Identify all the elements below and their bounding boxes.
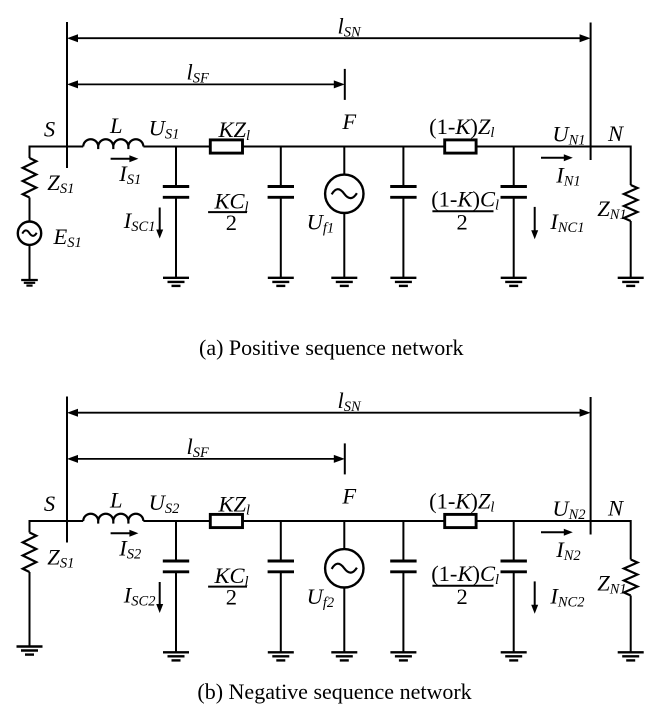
- inductor L (b): [83, 514, 143, 524]
- wire: F branch drop (b): [343, 521, 345, 549]
- capacitor (1-K)C_l/2 left (b): [390, 521, 416, 652]
- wire: Z_S1 to ground (b): [29, 572, 31, 647]
- wire: right drop to Z_N1 (a): [630, 146, 632, 186]
- svg-text:2: 2: [226, 585, 237, 610]
- dimension arrow l_SF (b): [67, 455, 345, 463]
- wire: main horizontal bus S to N (a): [30, 146, 84, 148]
- svg-text:N: N: [607, 121, 625, 146]
- ground (cap 1) (a): [163, 278, 189, 286]
- dimension arrow l_SF (a): [67, 80, 345, 88]
- wire: U_f2 to ground (b): [343, 588, 345, 653]
- capacitor (1-K)C_l/2 right (a): [501, 147, 527, 278]
- resistor Z_S1 (a): [23, 158, 37, 198]
- arrow current I_N2 direction (b): [541, 529, 573, 536]
- arrow current I_SC1 direction (a): [156, 208, 163, 239]
- ground (cap 1) (b): [163, 652, 189, 660]
- value label (1-K)C_l/2 (a): [431, 187, 499, 235]
- capacitor (1-K)C_l/2 right (b): [501, 521, 527, 652]
- svg-text:2: 2: [457, 210, 468, 235]
- source U_f1 (a): [325, 175, 363, 213]
- ground (cap 4) (a): [501, 278, 527, 286]
- ground (cap 4) (b): [501, 652, 527, 660]
- wire: Z_N1 to ground (a): [630, 221, 632, 278]
- svg-text:(1-K)Zl: (1-K)Zl: [429, 489, 494, 516]
- ground (source branch) (a): [21, 280, 38, 286]
- svg-text:2: 2: [226, 210, 237, 235]
- arrow current I_S1 direction (a): [111, 155, 139, 162]
- wire: left drop to Z_S1 (b): [29, 520, 31, 533]
- wire: F branch drop (a): [343, 147, 345, 175]
- svg-text:F: F: [341, 484, 356, 509]
- svg-text:L: L: [109, 488, 123, 513]
- wire: right drop to Z_N1 (b): [630, 520, 632, 560]
- ground (cap 2) (b): [268, 652, 294, 660]
- resistor Z_S1 (b): [23, 533, 37, 573]
- svg-text:(b) Negative sequence network: (b) Negative sequence network: [197, 679, 471, 704]
- node S bus line (b): [66, 397, 68, 543]
- inductor L (a): [83, 139, 143, 149]
- capacitor (1-K)C_l/2 left (a): [390, 147, 416, 278]
- node N bus line (a): [590, 23, 592, 161]
- wire: main horizontal bus S to N (b): [30, 520, 84, 522]
- svg-text:KZl: KZl: [218, 117, 251, 144]
- arrow current I_NC2 direction (b): [531, 581, 538, 613]
- svg-text:S: S: [44, 117, 55, 142]
- arrow current I_SC2 direction (b): [156, 582, 163, 613]
- value label KC_l/2 (b): [208, 563, 248, 610]
- resistor KZ_l (b): [210, 514, 242, 527]
- ground (fault source) (a): [331, 278, 357, 286]
- capacitor KC_l/2 left, node U_S2 (b): [163, 521, 189, 652]
- resistor Z_N1 (b): [624, 560, 638, 596]
- ground (source branch) (b): [17, 647, 43, 655]
- svg-text:L: L: [109, 113, 123, 138]
- arrow current I_NC1 direction (a): [531, 207, 538, 239]
- capacitor KC_l/2 right (a): [268, 147, 294, 278]
- wire: U_f1 to ground (a): [343, 213, 345, 278]
- capacitor KC_l/2 right (b): [268, 521, 294, 652]
- source E_S1 (a): [18, 222, 41, 245]
- ground (cap 3) (a): [390, 278, 416, 286]
- resistor KZ_l (a): [210, 140, 242, 153]
- ground (Z_N1) (b): [618, 652, 644, 660]
- wire: E_S1 to ground (a): [29, 245, 31, 280]
- wire: Z_S1 to E_S1 (a): [29, 198, 31, 222]
- ground (Z_N1) (a): [618, 278, 644, 286]
- node N bus line (b): [590, 397, 592, 535]
- wire: left drop to Z_S1 (a): [29, 146, 31, 159]
- resistor (1-K)Z_l (b): [445, 514, 476, 527]
- value label KC_l/2 (a): [208, 189, 248, 236]
- dimension arrow l_SN (a): [67, 34, 591, 42]
- arrow current I_S2 direction (b): [111, 530, 139, 537]
- resistor (1-K)Z_l (a): [445, 140, 476, 153]
- node S bus line (a): [66, 22, 68, 168]
- source U_f2 (b): [325, 549, 363, 587]
- ground (cap 2) (a): [268, 278, 294, 286]
- node F tick mark (b): [344, 443, 346, 474]
- dimension arrow l_SN (b): [67, 409, 591, 417]
- value label (1-K)C_l/2 (b): [431, 561, 499, 609]
- svg-text:KZl: KZl: [218, 492, 251, 519]
- ground (cap 3) (b): [390, 652, 416, 660]
- svg-text:N: N: [607, 496, 625, 521]
- svg-text:S: S: [44, 491, 55, 516]
- ground (fault source) (b): [331, 652, 357, 660]
- node F tick mark (a): [344, 69, 346, 100]
- arrow current I_N1 direction (a): [541, 154, 573, 161]
- svg-text:2: 2: [457, 584, 468, 609]
- svg-text:(1-K)Zl: (1-K)Zl: [429, 114, 494, 141]
- wire: Z_N1 to ground (b): [630, 596, 632, 653]
- svg-text:(a) Positive sequence network: (a) Positive sequence network: [199, 335, 464, 360]
- resistor Z_N1 (a): [624, 185, 638, 221]
- svg-text:F: F: [341, 109, 356, 134]
- capacitor KC_l/2 left, node U_S1 (a): [163, 147, 189, 278]
